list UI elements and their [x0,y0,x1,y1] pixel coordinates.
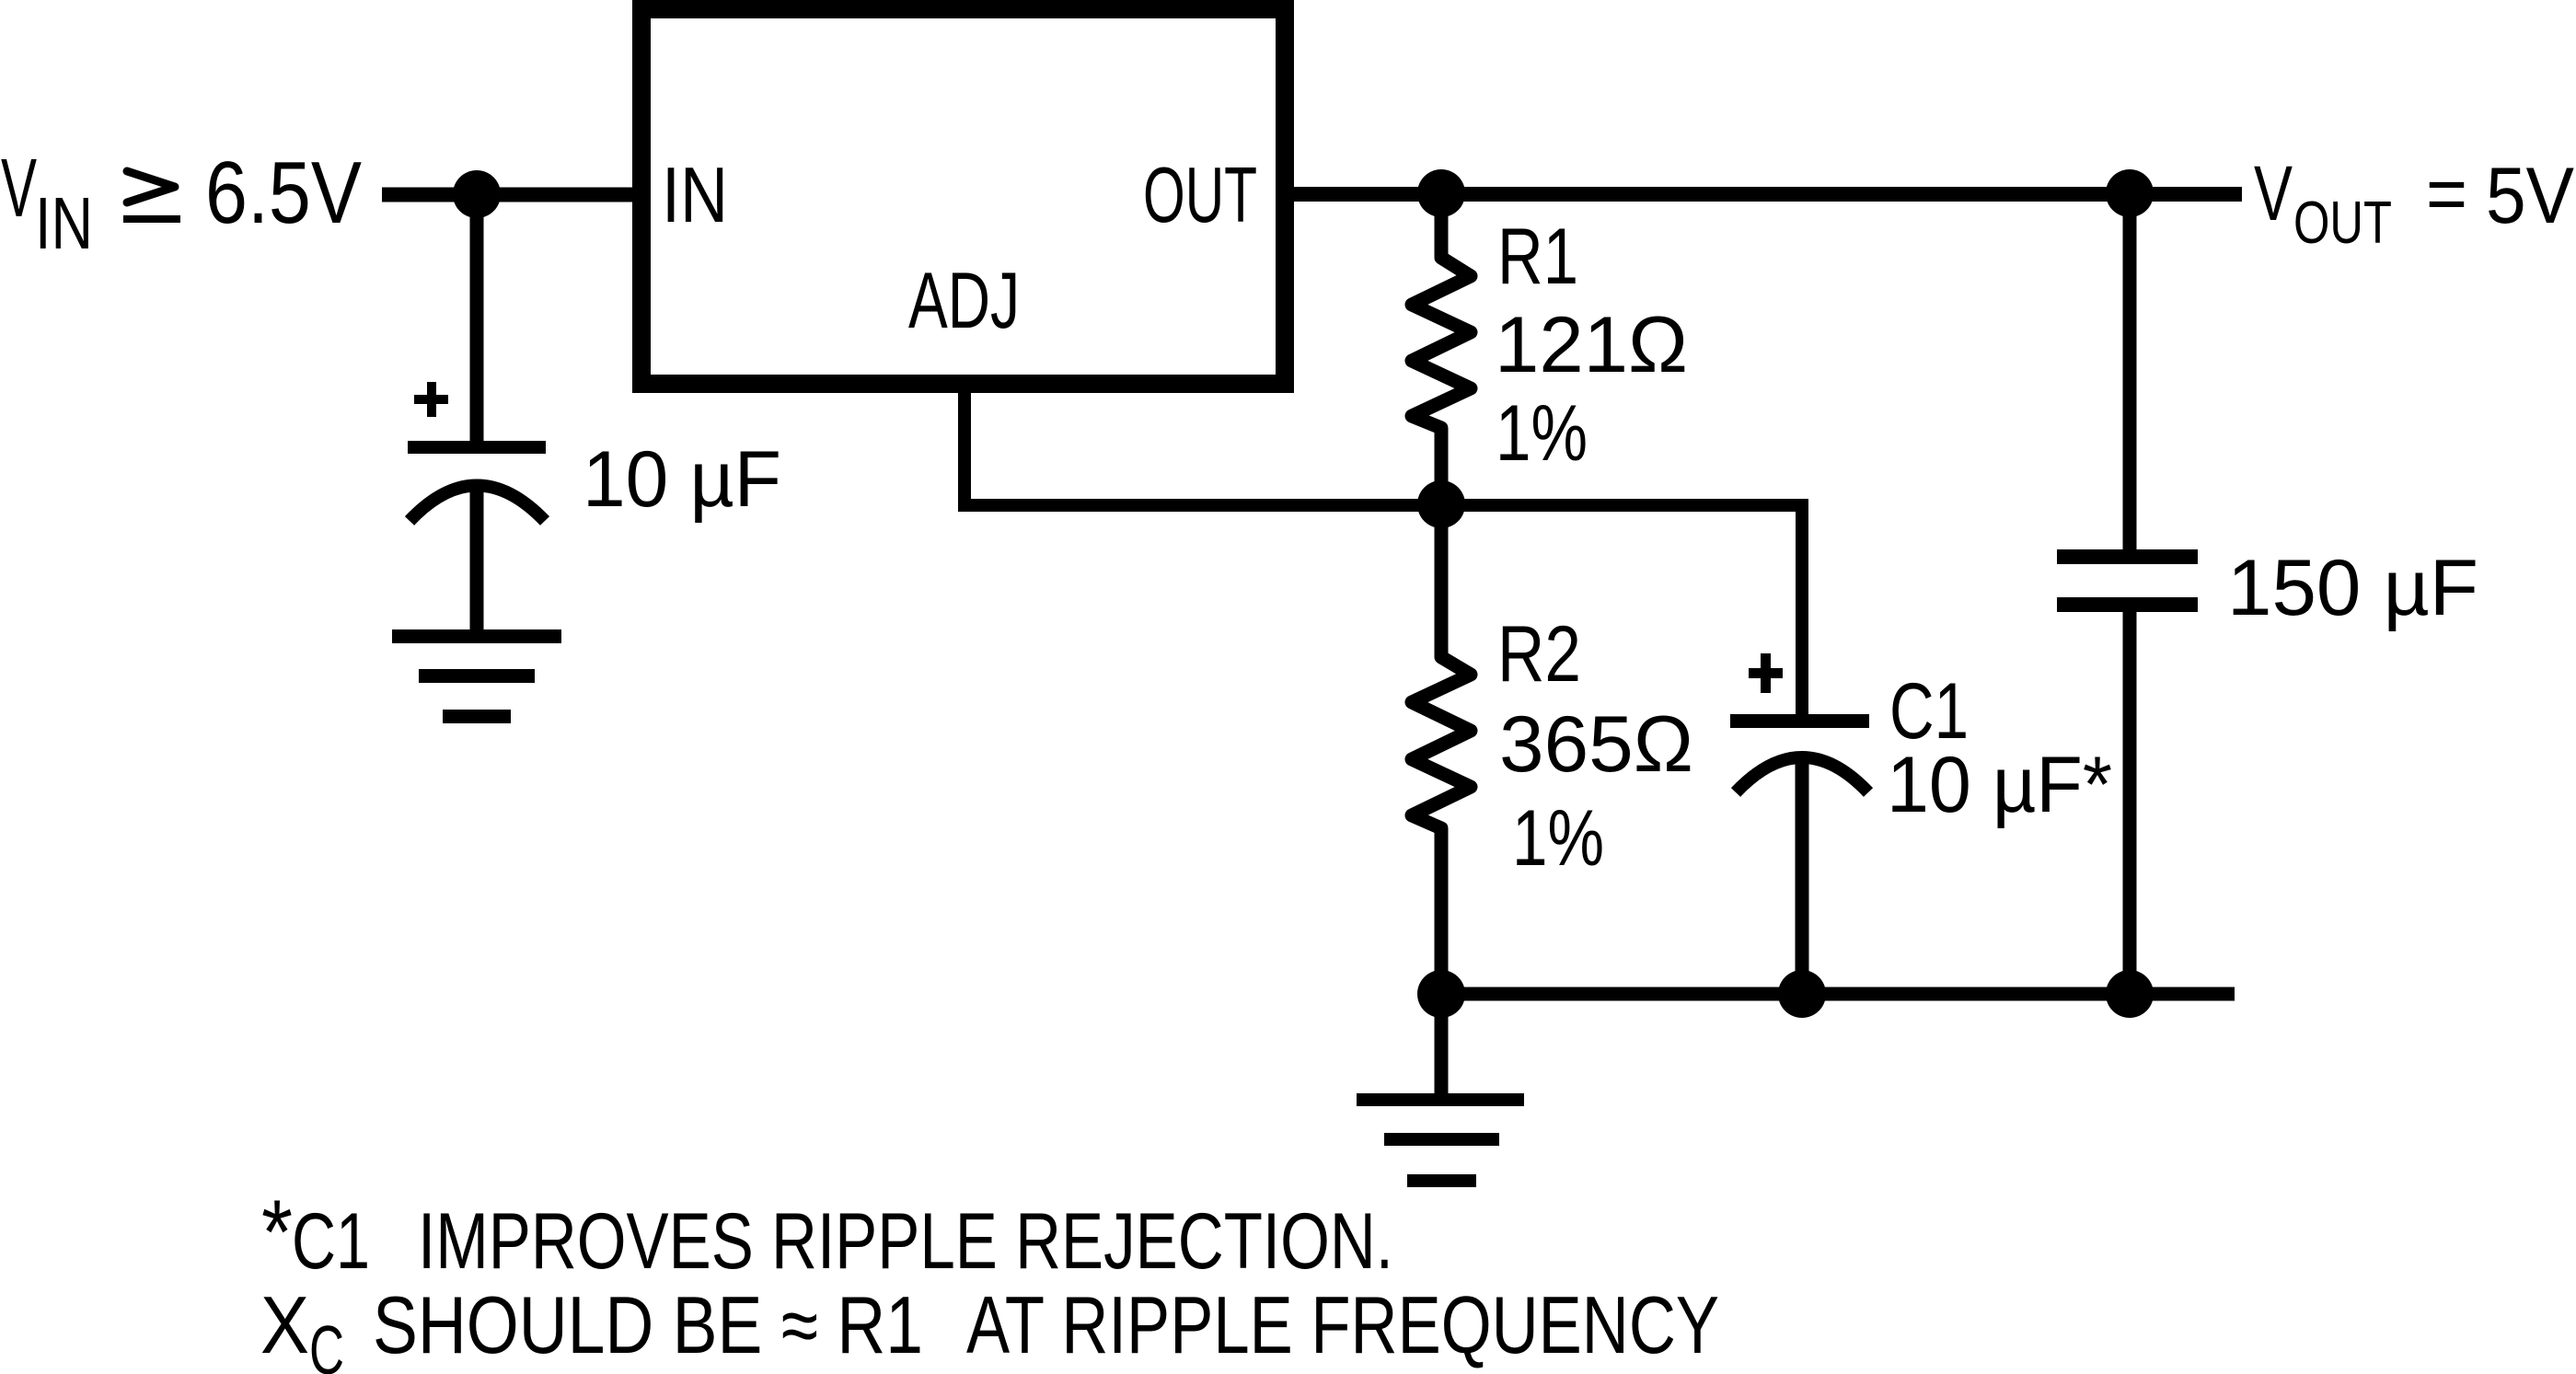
junction dot OUT/C150 [2106,169,2154,217]
wire junction down to Cin [470,194,484,447]
capacitor Cin curved plate [410,486,545,522]
svg-text:6.5V: 6.5V [205,144,362,242]
ground GND2 lead [1435,994,1449,1093]
capacitor C1 plus sign [1749,653,1783,693]
junction dot rail/C150 [2106,970,2154,1018]
svg-text:1%: 1% [1512,794,1604,883]
capacitor Cin top plate [408,441,546,454]
capacitor C150 bottom plate [2057,597,2198,612]
capacitor Cin plus sign [414,382,448,417]
svg-text:OUT: OUT [1143,152,1257,239]
svg-text:V: V [1,143,37,235]
capacitor C150 bottom lead [2123,612,2137,994]
svg-text:5V: 5V [2486,152,2574,240]
svg-text:X: X [260,1279,309,1370]
svg-text:IN: IN [662,152,728,239]
junction dot OUT/R1 [1417,169,1465,217]
svg-text:10 µF*: 10 µF* [1887,741,2112,829]
svg-text:10 µF: 10 µF [583,435,781,524]
svg-text:=: = [2426,150,2467,237]
junction dot VIN node [453,170,501,218]
svg-text:IMPROVES RIPPLE REJECTION.: IMPROVES RIPPLE REJECTION. [418,1197,1393,1286]
svg-text:AT RIPPLE FREQUENCY: AT RIPPLE FREQUENCY [966,1279,1719,1370]
svg-text:R1: R1 [1497,213,1578,301]
svg-text:C: C [309,1311,344,1374]
resistor R1 [1412,193,1471,504]
capacitor Cin bottom lead [470,491,484,637]
capacitor C1 bottom lead [1796,764,1809,994]
capacitor C1 top plate [1730,714,1869,728]
wire OUT to VOUT [1294,187,2242,202]
svg-text:ADJ: ADJ [908,257,1020,345]
junction dot rail/C1 [1778,970,1826,1018]
capacitor C150 top lead [2123,193,2137,549]
ground GND2 [1357,1093,1524,1106]
junction dot ADJ node [1417,480,1465,528]
svg-text:1%: 1% [1496,389,1588,478]
resistor R2 [1412,504,1471,994]
wire ADJ pin path [965,393,1802,714]
svg-text:V: V [2254,150,2293,237]
bottom rail wire [1441,987,2235,1001]
svg-text:150 µF: 150 µF [2227,544,2478,632]
svg-text:IN: IN [35,182,93,264]
svg-text:*: * [261,1181,293,1283]
svg-text:SHOULD BE ≈ R1: SHOULD BE ≈ R1 [373,1279,923,1370]
capacitor C150 top plate [2057,549,2198,564]
junction dot rail/R2 [1417,970,1465,1018]
svg-text:365Ω: 365Ω [1499,700,1693,789]
regulator U1 box [641,9,1285,384]
svg-text:R2: R2 [1497,610,1581,699]
svg-text:C1: C1 [292,1197,370,1286]
wire VIN to IN pin [382,188,632,202]
svg-text:121Ω: 121Ω [1495,301,1688,389]
capacitor C1 curved plate [1736,757,1868,792]
ground GND1 [392,629,561,643]
svg-text:OUT: OUT [2293,189,2392,256]
